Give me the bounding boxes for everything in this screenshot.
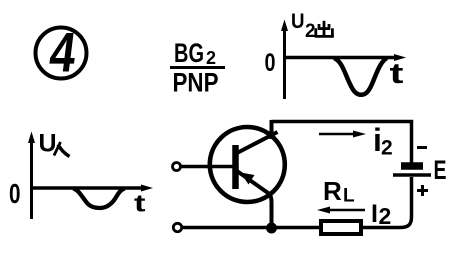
- wire base lead: [181, 165, 234, 169]
- svg-text:U: U: [291, 10, 305, 33]
- label I2: [371, 200, 391, 229]
- label Uin: [39, 130, 70, 158]
- current arrow i2 top: [319, 131, 366, 138]
- svg-text:2: 2: [379, 203, 392, 229]
- svg-text:PNP: PNP: [173, 68, 219, 98]
- svg-text:E: E: [434, 155, 447, 185]
- input graph horizontal axis: [30, 185, 153, 192]
- wire top (collector to battery): [272, 122, 412, 164]
- input waveform negative half-sine: [73, 189, 125, 209]
- svg-text:2: 2: [381, 137, 393, 160]
- input terminal bottom: [173, 223, 181, 231]
- transistor base bar: [232, 145, 239, 189]
- svg-text:0: 0: [265, 49, 276, 77]
- battery positive plate (long thin): [393, 173, 431, 177]
- label BG2: [174, 38, 216, 68]
- label RL: [323, 176, 355, 207]
- current arrow I2 (pointing left): [317, 207, 365, 214]
- output graph horizontal axis: [283, 54, 406, 61]
- output waveform negative half-sine: [334, 58, 387, 95]
- junction dot: [266, 223, 277, 234]
- output graph vertical axis: [281, 20, 288, 100]
- battery minus sign: [417, 146, 427, 149]
- label U2out: [291, 10, 334, 42]
- transistor Q circle: [210, 127, 285, 202]
- svg-text:t: t: [390, 58, 404, 90]
- input graph vertical axis: [28, 132, 35, 220]
- fraction line: [170, 66, 225, 69]
- svg-text:I: I: [371, 200, 378, 228]
- svg-text:0: 0: [9, 178, 21, 209]
- input terminal top: [173, 163, 181, 171]
- wire bottom (emitter row): [182, 226, 321, 230]
- svg-text:L: L: [343, 186, 355, 207]
- transistor emitter lead with PNP arrow: [237, 171, 272, 228]
- battery plus sign: [417, 185, 428, 196]
- svg-text:R: R: [323, 176, 342, 206]
- battery negative plate (short thick): [401, 162, 423, 170]
- resistor RL box: [321, 221, 361, 234]
- svg-text:2: 2: [305, 21, 316, 42]
- svg-text:t: t: [134, 191, 146, 218]
- svg-text:2: 2: [206, 48, 216, 68]
- wire battery to bottom: [361, 177, 412, 228]
- svg-text:BG: BG: [174, 38, 204, 68]
- figure number badge 4: [36, 20, 87, 83]
- transistor collector lead: [237, 132, 278, 153]
- label i2: [373, 122, 393, 160]
